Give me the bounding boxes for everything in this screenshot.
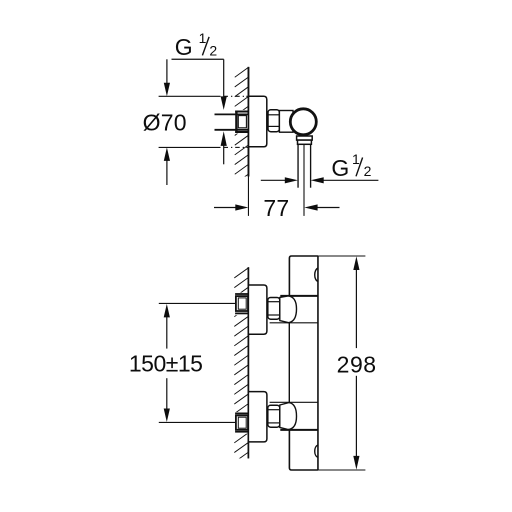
svg-text:G: G [175,34,193,60]
union socket square [235,111,237,133]
wall surface line over escutcheons [247,267,249,458]
boss line upper thick [280,295,318,297]
shower hose outlet walls [298,144,311,187]
lower escutcheon (bottom view) [248,392,267,442]
hose centerline [303,144,305,216]
thermostat body right edge [317,256,319,470]
lower union nut [268,405,280,427]
white mask behind wall unions [234,293,249,316]
upper union flange bars [235,294,248,313]
298 extension lines [318,255,365,257]
G1/2 leader arrows (top) [223,59,225,97]
svg-text:77: 77 [263,195,289,221]
upper union nut [268,298,280,320]
svg-text:1: 1 [352,151,360,167]
svg-text:1: 1 [199,30,207,46]
150 dimension line + arrows [164,304,170,318]
lower union socket square [236,415,248,429]
svg-text:2: 2 [209,42,217,58]
lower union flange bars [235,413,248,431]
dim ext line bottom (O70) with dash-dot [159,146,249,148]
handle screw lower [315,445,318,457]
wall surface line (over escutcheon edge) [247,67,249,177]
white mask behind supply pipe in wall [234,110,249,134]
G1/2 union flange bars [235,112,248,133]
svg-text:Ø70: Ø70 [143,109,187,135]
wall hatching (top view) [235,67,249,184]
upper union socket square [236,296,248,311]
wall surface line [247,67,249,177]
union nut (top view) [268,110,279,132]
hose collar [297,136,313,140]
svg-text:150±15: 150±15 [129,350,203,376]
wall hatching (bottom view) [234,268,248,462]
wall extension line (for 77 dim) [247,177,249,216]
body bottom edge [289,430,318,470]
boss line lower thin [270,401,318,403]
wall surface line (bottom view) [247,267,249,458]
77 dimension [214,207,236,209]
lower olive dome [280,403,297,430]
body mid-left edge [288,323,290,403]
escutcheon (top view) [249,96,267,147]
298 dimension line + arrows [353,256,359,270]
dim ext line top (O70) with dash-dot [159,95,249,97]
valve elbow circle [290,109,316,135]
handle screw upper [315,268,318,281]
O70 dimension arrows [166,59,168,84]
svg-text:2: 2 [364,163,372,179]
boss line upper thin [270,322,318,324]
upper olive dome [280,296,297,323]
G1/2 lower dimension [261,179,286,181]
G1/2 top label underline [172,58,224,60]
boss line lower thick [280,429,318,431]
svg-text:298: 298 [337,351,377,377]
150 dim extension lines [159,302,236,304]
connector block [279,111,293,133]
body top edge [289,256,318,296]
upper escutcheon (bottom view) [248,285,267,334]
supply pipe in wall [215,114,249,129]
svg-text:G: G [331,155,349,181]
